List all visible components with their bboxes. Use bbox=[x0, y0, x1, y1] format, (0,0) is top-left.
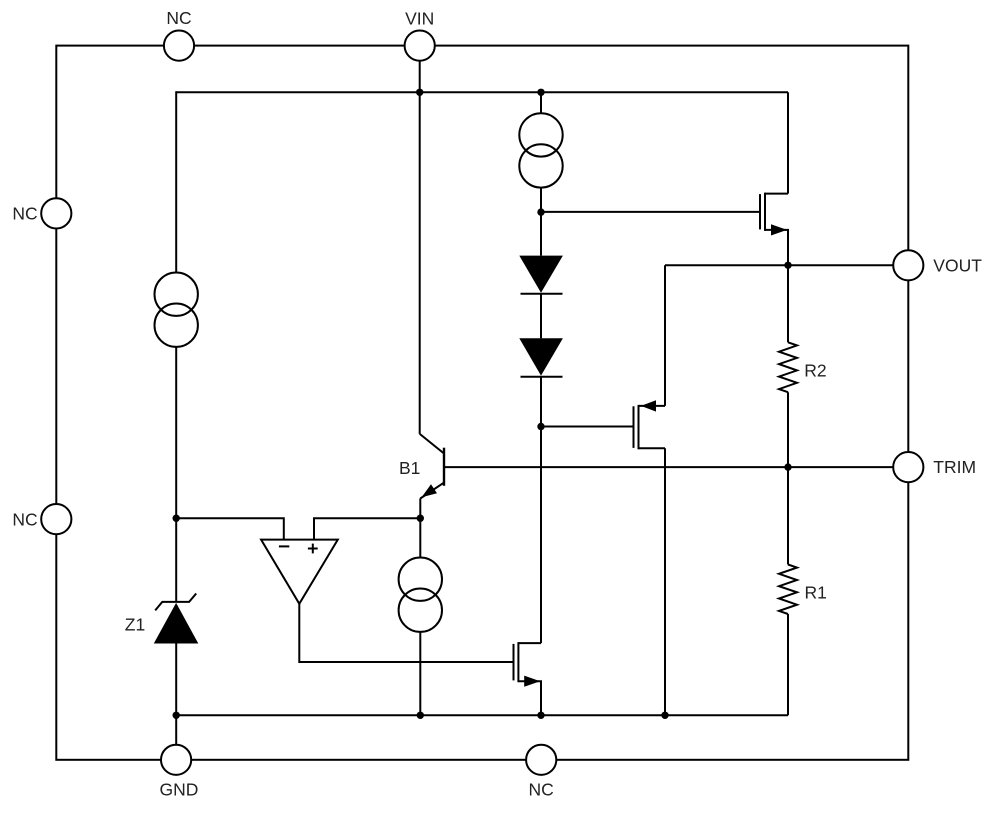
zener diode Z1 bbox=[154, 594, 199, 644]
wire: left branch upper bbox=[175, 91, 177, 272]
junction TRIM node bbox=[784, 463, 791, 470]
pin NC left lower bbox=[41, 504, 71, 534]
svg-text:B1: B1 bbox=[399, 458, 420, 478]
current source I1 bbox=[155, 273, 198, 347]
junction rail-M3 bbox=[537, 712, 544, 719]
pin TRIM bbox=[893, 452, 923, 482]
wire: opamp + input bbox=[314, 518, 420, 539]
wire: M2 source riser bbox=[664, 265, 666, 406]
wire: VIN stub bbox=[419, 61, 421, 93]
wire: VOUT node line bbox=[665, 264, 893, 266]
wire: opamp - input bbox=[176, 518, 284, 539]
wire: R1 bottom bbox=[787, 614, 789, 715]
wire: B1 collector riser bbox=[419, 92, 421, 434]
resistor R2 bbox=[779, 342, 797, 392]
transistor B1 bbox=[420, 434, 444, 499]
pin GND bbox=[161, 745, 191, 775]
current source I2 bbox=[519, 113, 562, 187]
wire: current source to D1 bbox=[540, 188, 542, 256]
op-amp U1 bbox=[261, 540, 338, 604]
svg-text:VOUT: VOUT bbox=[933, 255, 982, 275]
PMOS M2 bbox=[634, 400, 666, 449]
wire: R2 to R1 bbox=[787, 392, 789, 564]
wire: R2 top bbox=[787, 265, 789, 342]
wire: I3 to ground rail bbox=[419, 632, 421, 715]
junction rail-GND bbox=[173, 712, 180, 719]
junction M2 gate tap bbox=[537, 423, 544, 430]
resistor R1 bbox=[779, 565, 797, 615]
wire: left branch middle bbox=[175, 347, 177, 602]
junction B1 emitter node bbox=[417, 515, 424, 522]
wire: D2 down to M3 drain bbox=[540, 377, 542, 643]
svg-text:VIN: VIN bbox=[405, 8, 434, 28]
junction rail-M2 bbox=[661, 712, 668, 719]
wire: node to I3 bbox=[419, 518, 421, 557]
svg-text:R2: R2 bbox=[804, 360, 826, 380]
current source I3 bbox=[399, 558, 442, 632]
svg-text:NC: NC bbox=[529, 779, 554, 799]
wire: M2 gate bbox=[541, 426, 634, 428]
junction left--input bbox=[173, 515, 180, 522]
svg-text:GND: GND bbox=[160, 779, 199, 799]
svg-text:Z1: Z1 bbox=[125, 614, 145, 634]
svg-text:TRIM: TRIM bbox=[933, 457, 976, 477]
pin VIN bbox=[405, 30, 435, 60]
wire: VIN inner rail bbox=[176, 91, 788, 93]
svg-text:R1: R1 bbox=[805, 583, 827, 603]
pin NC left upper bbox=[41, 198, 71, 228]
NMOS M1 bbox=[760, 92, 788, 265]
pin NC top bbox=[164, 30, 194, 60]
junction VIN-rail bbox=[416, 89, 423, 96]
diode D1 bbox=[519, 256, 563, 294]
pin VOUT bbox=[893, 250, 923, 280]
junction VOUT node bbox=[784, 262, 791, 269]
junction M1 gate tap bbox=[537, 208, 544, 215]
wire: M2 drain drop bbox=[664, 448, 666, 715]
wire: TRIM line bbox=[444, 466, 893, 468]
wire: D1 to D2 bbox=[540, 294, 542, 339]
diode D2 bbox=[519, 338, 563, 376]
NMOS M3 bbox=[514, 642, 542, 715]
wire: ground rail bbox=[176, 714, 788, 716]
wire: M1 gate bbox=[541, 211, 760, 213]
wire: middle riser from rail bbox=[540, 92, 542, 113]
wire: GND stub bbox=[175, 715, 177, 744]
svg-text:NC: NC bbox=[12, 509, 37, 529]
wire: B1 emitter drop bbox=[419, 498, 421, 518]
pin NC bottom bbox=[526, 745, 556, 775]
wire: left branch lower bbox=[175, 644, 177, 716]
svg-text:NC: NC bbox=[12, 204, 37, 224]
chip boundary bbox=[56, 46, 908, 760]
junction rail-I3 bbox=[417, 712, 424, 719]
wire: opamp output bbox=[299, 604, 513, 662]
svg-text:NC: NC bbox=[166, 8, 191, 28]
junction rail-I2 bbox=[537, 89, 544, 96]
